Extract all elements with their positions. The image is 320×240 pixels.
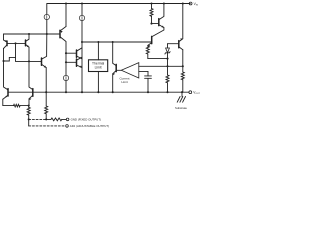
wire dashed adj link xyxy=(29,125,66,127)
terminal ADJ xyxy=(66,125,69,128)
svg-text:Limit: Limit xyxy=(95,65,102,69)
transistor Q10 xyxy=(113,42,117,75)
svg-text:Limit: Limit xyxy=(121,80,128,84)
wire R3 to output rail xyxy=(167,83,169,92)
node dot rail x66 xyxy=(65,2,67,4)
node dot Q5 base xyxy=(28,60,30,62)
node dot gnd row right xyxy=(45,118,47,120)
wire I1 to node A xyxy=(46,20,48,35)
wire U1 lower input stub xyxy=(139,70,148,72)
wire U1 upper input line to Q9 emitter node xyxy=(139,65,183,67)
wire Qa emitter to R5 xyxy=(3,99,14,105)
terminal GND xyxy=(66,118,69,121)
wire R2 to zener node xyxy=(148,54,168,59)
wire jog to Q5 base xyxy=(16,57,30,61)
wire from rail to I2 xyxy=(81,4,83,16)
current source I3 xyxy=(63,75,68,80)
node dot box drive xyxy=(97,41,99,43)
wire R6 to gnd node xyxy=(28,115,30,119)
wire Q10 emitter to output rail xyxy=(112,74,114,92)
terminal VOUT xyxy=(189,91,192,94)
transistor Qb xyxy=(29,61,33,100)
node dot A on bus xyxy=(46,33,48,35)
node dot substrate xyxy=(181,91,183,93)
svg-text:VIN: VIN xyxy=(194,2,199,7)
wire adj drop xyxy=(28,119,30,126)
wire Qb emitter to node E xyxy=(28,99,30,106)
wire base tap with jog xyxy=(4,43,16,61)
transistor Q1 xyxy=(4,40,8,49)
wire Q7 emitter to R2 xyxy=(147,44,149,47)
wire node C to node D xyxy=(65,53,67,62)
wire D1 anode to Q9 base xyxy=(168,43,179,45)
wire Q8 emitter to Q7 collector xyxy=(152,28,164,37)
node dot rail x148 bottom xyxy=(147,91,149,93)
resistor R5 xyxy=(14,104,21,107)
resistor R8 xyxy=(51,118,62,121)
wire Q1 collector drop xyxy=(3,49,5,62)
current source I1 xyxy=(44,14,49,19)
transistor Qa xyxy=(3,61,8,99)
node dot rail x167.5 bottom xyxy=(166,91,168,93)
zener diode D1 xyxy=(165,44,170,59)
node dot B xyxy=(81,41,83,43)
wire node D to I3 xyxy=(65,62,67,75)
wire R4 to output rail xyxy=(182,80,184,92)
wire Q9 emitter column xyxy=(182,50,184,72)
wire R7 to gnd node xyxy=(45,114,47,120)
node dot zener line cross xyxy=(166,65,168,67)
node dot E xyxy=(28,105,30,107)
node dot rail x82 xyxy=(81,2,83,4)
node dot rail x46.2 xyxy=(45,91,47,93)
node dot base tap xyxy=(14,42,16,44)
node dot rail x66 bottom xyxy=(65,91,67,93)
wire to R8 xyxy=(46,118,51,120)
ground substrate symbol xyxy=(177,92,185,102)
wire I3 to output rail xyxy=(65,81,67,93)
svg-text:GND (FIXED OUTPUT): GND (FIXED OUTPUT) xyxy=(71,118,101,122)
wire I2 to node B xyxy=(81,21,83,43)
node dot rail x151.5 xyxy=(150,2,152,4)
terminal VIN xyxy=(189,2,192,5)
node dot C xyxy=(65,52,67,54)
resistor R7 xyxy=(45,106,48,114)
node dot rail x82 bottom xyxy=(81,91,83,93)
transistor Q4 xyxy=(77,48,83,59)
transistor Q9 xyxy=(179,4,183,50)
wire from rail to I1 xyxy=(46,4,48,15)
thermal limit box U2 xyxy=(89,60,108,72)
node dot Q10 collector xyxy=(112,41,114,43)
resistor R1 xyxy=(150,9,153,17)
node dot Q1 collector xyxy=(2,60,4,62)
wire Q4 base xyxy=(66,52,77,54)
wire base bus Q1-Q2 xyxy=(7,42,26,44)
wire box to output rail xyxy=(97,72,99,93)
wire from rail to R1 xyxy=(151,4,153,9)
wire Q6 base xyxy=(66,61,77,63)
resistor R4 xyxy=(181,72,184,80)
wire zener node down xyxy=(167,59,169,75)
node dot rail x112.7 bottom xyxy=(112,91,114,93)
resistor R6 xyxy=(27,107,30,115)
node dot Q8 base xyxy=(150,23,152,25)
node dot Q2 emitter on bus xyxy=(28,33,30,35)
wire R8 to GND terminal xyxy=(62,118,67,120)
transistor Q8 xyxy=(152,4,164,28)
node dot rail x98.4 bottom xyxy=(97,91,99,93)
transistor Q5 xyxy=(29,34,47,68)
wire node E to R6 xyxy=(28,106,30,108)
wire C1 to output rail xyxy=(147,78,149,92)
wire Q4/Q6 collector column xyxy=(81,42,83,92)
node dot gnd row left xyxy=(28,118,30,120)
transistor Q2 xyxy=(26,34,30,47)
op-amp U1 current limit xyxy=(121,63,139,78)
wire to thermal limit box xyxy=(97,42,99,60)
wire rail to R7 xyxy=(45,92,47,106)
resistor R3 xyxy=(166,75,169,83)
current source I2 xyxy=(79,15,84,20)
node dot D xyxy=(65,61,67,63)
transistor Q3 xyxy=(60,4,66,54)
wire R5 to node E xyxy=(20,105,29,107)
wire Q2 collector column xyxy=(28,47,30,61)
svg-text:Substrate: Substrate xyxy=(175,106,187,110)
capacitor C1 xyxy=(145,71,152,78)
node dot zener bottom xyxy=(166,58,168,60)
transistor Q7 xyxy=(148,36,152,47)
wire drive net to Q7 base xyxy=(82,41,152,43)
wire R1 to Q8 base node xyxy=(151,16,153,23)
wire output rail xyxy=(8,91,189,93)
wire dashed gnd link xyxy=(29,118,47,120)
svg-text:VOUT: VOUT xyxy=(193,91,200,96)
node dot Q9 emitter line xyxy=(182,65,184,67)
resistor R2 xyxy=(146,46,149,54)
wire V+ supply rail xyxy=(47,3,190,5)
wire emitter bus y34 xyxy=(4,34,60,40)
transistor Q6 xyxy=(77,57,83,67)
node dot rail x163.9 xyxy=(163,2,165,4)
node dot rail x182.8 xyxy=(182,2,184,4)
wire U1 output to Q10 base xyxy=(116,69,121,71)
wire Q5 emitter drop xyxy=(45,68,47,93)
svg-text:ADJ (ADJUSTABLE OUTPUT): ADJ (ADJUSTABLE OUTPUT) xyxy=(70,124,109,128)
